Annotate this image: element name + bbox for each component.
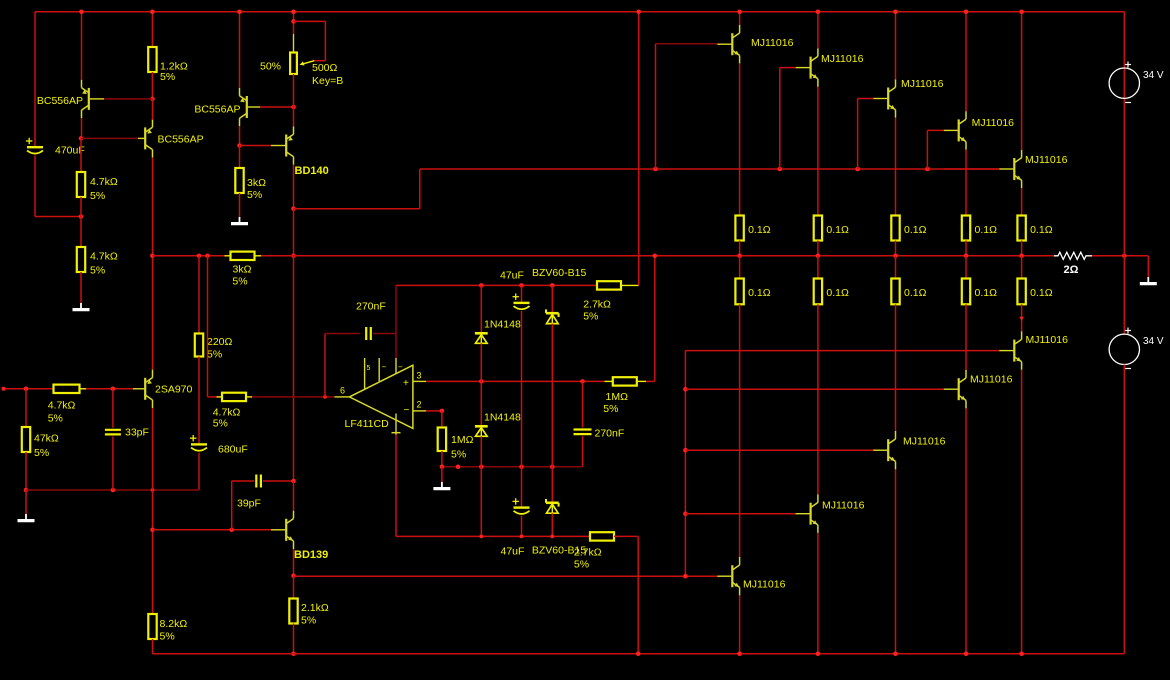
resistor R14 1M (horizontal to output rail) bbox=[613, 377, 637, 385]
wire Q10 collector to +34 bus bbox=[965, 12, 967, 111]
resistor R15 2.7k bbox=[597, 281, 621, 289]
svg-text:0.1Ω: 0.1Ω bbox=[904, 224, 927, 236]
svg-text:−: − bbox=[404, 405, 410, 416]
wire BD140 emitter up to pot column bbox=[293, 107, 295, 126]
resistor R13 1M (vertical) bbox=[441, 411, 443, 428]
svg-text:270nF: 270nF bbox=[356, 301, 386, 313]
svg-text:5%: 5% bbox=[48, 413, 63, 425]
transistor Q14 MJ11016 (lower bank) bbox=[887, 439, 889, 461]
wire Q2 emitter up bbox=[152, 99, 154, 120]
wire node down to R5 bbox=[239, 146, 241, 169]
svg-text:5%: 5% bbox=[301, 615, 316, 627]
wire Q1 collector down to junction bbox=[81, 118, 83, 138]
transistor Q12 MJ11016 (lower bank) bbox=[731, 565, 733, 587]
node left column crossing bbox=[151, 488, 155, 492]
wire Q8 base lead bbox=[796, 67, 811, 69]
transistor Q7 MJ11016 (upper bank) bbox=[731, 33, 733, 55]
svg-text:47kΩ: 47kΩ bbox=[34, 433, 59, 445]
svg-text:2: 2 bbox=[417, 400, 422, 410]
svg-text:34 V: 34 V bbox=[1143, 70, 1164, 81]
transistor Q11 MJ11016 (upper bank) bbox=[1013, 158, 1015, 180]
wire BD140 collector down bbox=[293, 165, 295, 209]
svg-text:500Ω: 500Ω bbox=[312, 62, 338, 74]
transistor Q10 MJ11016 (upper bank) bbox=[958, 119, 960, 141]
node R1/Q1 base/Q2 emitter bbox=[150, 97, 155, 102]
svg-text:−: − bbox=[382, 363, 387, 372]
op-amp pin 3 lead bbox=[413, 380, 426, 382]
svg-text:0.1Ω: 0.1Ω bbox=[975, 287, 998, 299]
svg-text:BC556AP: BC556AP bbox=[37, 95, 83, 107]
svg-text:5%: 5% bbox=[213, 418, 228, 430]
wire R2 to junction bbox=[80, 197, 82, 217]
node V- dots bbox=[479, 535, 483, 539]
wire 47k ground stem bbox=[25, 490, 27, 514]
svg-text:MJ11016: MJ11016 bbox=[1025, 154, 1068, 166]
node pin3/diodes bbox=[479, 379, 484, 384]
svg-text:0.1Ω: 0.1Ω bbox=[826, 287, 849, 299]
svg-text:MJ11016: MJ11016 bbox=[901, 78, 944, 90]
wire V+ pin7 (dark) bbox=[395, 285, 397, 358]
svg-text:4.7kΩ: 4.7kΩ bbox=[90, 251, 118, 263]
transistor Q13 MJ11016 (lower bank) bbox=[809, 503, 811, 525]
svg-text:3kΩ: 3kΩ bbox=[247, 177, 266, 189]
wire top +34V bus bbox=[35, 11, 1124, 13]
wire BD139 emitter to R11 bbox=[293, 576, 295, 599]
node pin2 / R13 1M bbox=[426, 410, 442, 412]
wire BD140 collector through rail down to BD139 bbox=[293, 209, 295, 256]
svg-text:5%: 5% bbox=[34, 447, 49, 459]
ground GND4 bbox=[441, 482, 443, 488]
wire ground stem mid bbox=[441, 467, 443, 482]
capacitor C10 47uF (lower) bbox=[521, 467, 523, 507]
svg-text:5: 5 bbox=[367, 365, 371, 372]
svg-text:2.7kΩ: 2.7kΩ bbox=[583, 299, 611, 311]
svg-text:MJ11016: MJ11016 bbox=[1026, 334, 1069, 346]
node bus / -34 feed bbox=[636, 652, 641, 657]
svg-text:MJ11016: MJ11016 bbox=[822, 500, 865, 512]
resistor R12 8.2k bbox=[148, 614, 156, 639]
voltage source V1 34V bbox=[1123, 12, 1125, 334]
voltage source V2 34V bbox=[1109, 334, 1139, 364]
svg-text:BC556AP: BC556AP bbox=[194, 104, 240, 116]
emitter resistors 0.1 Ohm row 1 bbox=[735, 216, 743, 241]
svg-text:5%: 5% bbox=[603, 403, 618, 415]
wire 1M to output rail column bbox=[646, 380, 655, 382]
svg-text:0.1Ω: 0.1Ω bbox=[1030, 287, 1053, 299]
node bus/Q1 bbox=[79, 10, 84, 15]
node bus/+34 column bbox=[636, 10, 641, 15]
upper driver rail y=169 bbox=[656, 168, 1000, 170]
wire Q7 collector to +34 bus bbox=[739, 12, 741, 25]
wire Q7 base lead bbox=[717, 43, 732, 45]
svg-text:4.7kΩ: 4.7kΩ bbox=[90, 176, 118, 188]
svg-text:0.1Ω: 0.1Ω bbox=[1030, 224, 1053, 236]
svg-text:0.1Ω: 0.1Ω bbox=[748, 224, 771, 236]
svg-text:MJ11016: MJ11016 bbox=[751, 37, 794, 49]
svg-text:1N4148: 1N4148 bbox=[484, 412, 521, 424]
wire 2SA970 collector down bbox=[152, 408, 154, 614]
op-amp U1 LF411CD bbox=[349, 365, 413, 428]
wire Q15 base lead bbox=[944, 388, 959, 390]
wire lower driver net to output bank bbox=[294, 575, 718, 577]
svg-text:BC556AP: BC556AP bbox=[158, 134, 204, 146]
wire Vz+ net (zener bias top) bbox=[396, 284, 480, 286]
node output rail / 1M column bbox=[653, 254, 658, 259]
capacitor C9 47uF (upper) bbox=[521, 285, 523, 302]
transistor Q1 BC556AP (left) bbox=[88, 88, 90, 110]
wire left column to 470uF bbox=[34, 12, 36, 147]
svg-text:5%: 5% bbox=[247, 189, 262, 201]
svg-text:5%: 5% bbox=[583, 311, 598, 323]
staircase wires upper bank bases bbox=[656, 43, 718, 45]
svg-text:4.7kΩ: 4.7kΩ bbox=[48, 400, 76, 412]
op-amp pin 6 output lead bbox=[335, 396, 350, 398]
wire BD139 base net bbox=[153, 529, 272, 531]
svg-text:5%: 5% bbox=[574, 559, 589, 571]
resistor R8 4.7k (horizontal) bbox=[222, 393, 246, 401]
resistor R3 4.7k bbox=[80, 217, 82, 248]
wire BD140 base bbox=[240, 145, 272, 147]
capacitor C6 39pF bbox=[255, 475, 257, 488]
node junction 4.7k/4.7k/470uF bbox=[79, 214, 84, 219]
svg-text:BD139: BD139 bbox=[294, 549, 328, 561]
ground GND3 bbox=[25, 514, 27, 520]
svg-text:2Ω: 2Ω bbox=[1064, 264, 1079, 276]
transistor Q15 MJ11016 (lower bank) bbox=[958, 378, 960, 400]
svg-text:LF411CD: LF411CD bbox=[345, 418, 390, 430]
svg-text:2.1kΩ: 2.1kΩ bbox=[301, 602, 329, 614]
svg-text:6: 6 bbox=[340, 386, 345, 396]
svg-text:3: 3 bbox=[417, 371, 422, 381]
node 47k/бottom wire bbox=[24, 488, 29, 493]
wire Q2 base (dark) bbox=[81, 137, 138, 139]
svg-text:220Ω: 220Ω bbox=[207, 336, 233, 348]
red marker arrow on Q16 collector bbox=[1019, 317, 1023, 321]
op-amp pin 2 lead bbox=[413, 410, 426, 412]
node 33pF bottom bbox=[111, 488, 116, 493]
load resistor R17 2 Ohm (zigzag) bbox=[1054, 252, 1092, 259]
node BD139 collector / 39pF bbox=[291, 479, 296, 484]
svg-text:5%: 5% bbox=[232, 276, 247, 288]
svg-text:5%: 5% bbox=[90, 265, 105, 277]
svg-text:MJ11016: MJ11016 bbox=[972, 117, 1015, 129]
resistor R6 3k (horizontal, in output rail) bbox=[231, 252, 255, 260]
transistor Q2 BC556AP (second) bbox=[144, 127, 146, 149]
node Q3 base / pot column bbox=[291, 105, 296, 110]
node 270nF tap bbox=[323, 395, 327, 399]
wire 2.7k lower to bottom bus bbox=[637, 536, 639, 653]
svg-text:MJ11016: MJ11016 bbox=[821, 53, 864, 65]
potentiometer R4 500 Ohm bbox=[293, 12, 295, 34]
wire R3 to ground bbox=[80, 272, 82, 303]
wire Q10 base lead bbox=[944, 129, 959, 131]
wire Q11 emitter to 0.1R bbox=[1021, 188, 1023, 215]
svg-text:2SA970: 2SA970 bbox=[155, 384, 193, 396]
ground GND1 bbox=[80, 303, 82, 309]
capacitor C7 270nF (feedback) bbox=[324, 334, 326, 397]
svg-text:34 V: 34 V bbox=[1143, 336, 1164, 347]
wire Q15 emitter to -34 bus bbox=[965, 408, 967, 653]
diode D1 1N4148 (upper) bbox=[480, 285, 482, 333]
node rail / right column bbox=[1122, 254, 1127, 259]
svg-text:5%: 5% bbox=[160, 631, 175, 643]
wire Q1 emitter up to bus bbox=[81, 12, 83, 80]
wire +34 column to 2.7k bbox=[638, 12, 640, 286]
lower bank base rungs bbox=[685, 350, 999, 352]
wire Q9 collector to +34 bus bbox=[895, 12, 897, 80]
node 33pF tap bbox=[111, 387, 116, 392]
transistor Q9 MJ11016 (upper bank) bbox=[887, 88, 889, 110]
svg-text:50%: 50% bbox=[260, 61, 281, 73]
svg-text:MJ11016: MJ11016 bbox=[743, 579, 786, 591]
wire Q9 emitter to 0.1R bbox=[895, 118, 897, 216]
svg-text:0.1Ω: 0.1Ω bbox=[748, 287, 771, 299]
wire Q11 base lead bbox=[999, 168, 1014, 170]
capacitor C5 680uF bbox=[191, 443, 207, 445]
resistor R10 47k bbox=[25, 389, 27, 427]
svg-text:BD140: BD140 bbox=[295, 165, 329, 177]
svg-text:47uF: 47uF bbox=[501, 546, 525, 558]
svg-text:5%: 5% bbox=[207, 349, 222, 361]
wire 470uF bottom to lower-left corner bbox=[34, 156, 36, 217]
wire Q9 base lead bbox=[873, 98, 888, 100]
node BD139 emitter / lower driver net bbox=[291, 574, 296, 579]
zener D4 BZV60-B15 (lower) bbox=[551, 467, 553, 503]
node bus/Q3 bbox=[237, 10, 242, 15]
ground GND2 bbox=[239, 217, 241, 223]
svg-text:5%: 5% bbox=[451, 449, 466, 461]
node bus/R11 bbox=[291, 652, 296, 657]
transistor Q3 BC556AP (top middle) bbox=[246, 96, 248, 118]
svg-text:33pF: 33pF bbox=[125, 427, 149, 439]
node 39pF branch bbox=[150, 528, 155, 533]
wire Q13 base lead bbox=[796, 513, 811, 515]
wire op-amp output net (dark) bbox=[252, 396, 335, 398]
svg-text:MJ11016: MJ11016 bbox=[903, 436, 946, 448]
node Q1 collector junction bbox=[79, 136, 84, 141]
node 39pF left column bbox=[229, 528, 234, 533]
wire 2SA970 base lead bbox=[133, 388, 145, 390]
emitter resistors 0.1 Ohm row 2 bbox=[739, 256, 741, 279]
wire bottom-left net bbox=[26, 489, 199, 491]
wire Q2 collector down long column bbox=[152, 158, 154, 370]
wire Q10 emitter to 0.1R bbox=[965, 150, 967, 216]
wire MJ5 base from rail bbox=[944, 168, 1000, 170]
wire Q3 emitter up to bus bbox=[239, 12, 241, 88]
node input endpoint bbox=[2, 387, 6, 391]
capacitor C1 470uF bbox=[27, 146, 43, 148]
svg-text:Key=B: Key=B bbox=[312, 75, 343, 87]
node input / 47k bbox=[24, 387, 29, 392]
transistor Q16 MJ11016 (lower bank) bbox=[1013, 340, 1015, 362]
wire Q11 collector to +34 bus bbox=[1021, 12, 1023, 150]
wire output rail (left part) bbox=[152, 255, 224, 257]
svg-text:0.1Ω: 0.1Ω bbox=[904, 287, 927, 299]
wire Q12 base lead bbox=[717, 575, 732, 577]
resistor R1 1.2k bbox=[151, 12, 153, 47]
wire Q3 collector down bbox=[239, 126, 241, 145]
node rail/220R bbox=[197, 254, 202, 259]
wire Q7 emitter to 0.1R bbox=[739, 63, 741, 215]
wire 39pF left column up bbox=[231, 481, 233, 530]
wire BD139 collector up bbox=[293, 481, 295, 511]
resistor R5 3k (vertical) bbox=[235, 168, 243, 193]
wire output rail right end bbox=[1092, 255, 1148, 257]
svg-text:1N4148: 1N4148 bbox=[484, 319, 521, 331]
wire 0.1R row2 down to lower bank collectors bbox=[739, 304, 741, 557]
svg-text:+: + bbox=[403, 378, 409, 389]
wire Q1 base to node bbox=[89, 98, 104, 100]
node BD140 collector corner bbox=[291, 206, 296, 211]
resistor R16 2.7k (lower, in V- line) bbox=[590, 532, 614, 540]
resistor R9 4.7k (horizontal input) bbox=[54, 385, 80, 393]
node bus/R1 bbox=[150, 10, 155, 15]
wire Q3 base to pot column bbox=[247, 106, 260, 108]
svg-text:0.1Ω: 0.1Ω bbox=[826, 224, 849, 236]
node rail/branch 207.5 bbox=[205, 254, 210, 259]
wire 8.2k to bottom bus bbox=[152, 639, 154, 654]
svg-text:47uF: 47uF bbox=[500, 270, 524, 282]
capacitor C4 33pF bbox=[112, 389, 114, 428]
wire Q14 emitter to -34 bus bbox=[895, 469, 897, 653]
svg-text:5%: 5% bbox=[90, 190, 105, 202]
resistor R7 220R bbox=[198, 256, 200, 334]
wire V- pin4 down bbox=[395, 435, 397, 537]
wire right column lower half bbox=[1123, 365, 1125, 654]
wire junction down to R2 bbox=[80, 138, 82, 172]
svg-text:−: − bbox=[398, 363, 403, 372]
op-amp pin 4 stub bbox=[395, 414, 397, 435]
input wire left bbox=[4, 388, 54, 390]
wire 220R to 680uF bbox=[198, 357, 200, 444]
node gnd net dots bbox=[440, 465, 445, 470]
node pin3/270nF2 bbox=[580, 379, 585, 384]
ground GND5 bbox=[1147, 277, 1149, 283]
wire to upper driver rail bbox=[294, 208, 420, 210]
wire Q14 base lead bbox=[873, 449, 888, 451]
svg-text:680uF: 680uF bbox=[218, 444, 248, 456]
svg-text:270nF: 270nF bbox=[595, 428, 625, 440]
zener D2 BZV60-B15 (upper) bbox=[551, 285, 553, 313]
capacitor C8 270nF (pin3 to gnd net) bbox=[582, 381, 584, 427]
svg-text:5%: 5% bbox=[160, 71, 175, 83]
transistor Q6 BD139 bbox=[285, 519, 287, 541]
svg-text:BZV60-B15: BZV60-B15 bbox=[532, 267, 586, 279]
wire 680uF bottom bbox=[198, 453, 200, 490]
wire pin3 net bbox=[426, 380, 605, 382]
op-amp balance stubs and V+ pin 7 bbox=[364, 358, 366, 389]
wire Q13 emitter to -34 bus bbox=[817, 533, 819, 654]
transistor Q8 MJ11016 (upper bank) bbox=[809, 57, 811, 79]
wire to right ground bbox=[1147, 256, 1149, 277]
wire R5 to ground bbox=[239, 193, 241, 217]
lower bank ladder vertical bbox=[684, 351, 686, 577]
svg-text:MJ11016: MJ11016 bbox=[970, 374, 1013, 386]
svg-text:1MΩ: 1MΩ bbox=[451, 434, 474, 446]
wire Q12 emitter to -34 bus bbox=[739, 595, 741, 653]
svg-text:2.7kΩ: 2.7kΩ bbox=[574, 547, 602, 559]
svg-text:1MΩ: 1MΩ bbox=[606, 391, 629, 403]
transistor Q5 2SA970 bbox=[144, 378, 146, 400]
svg-text:8.2kΩ: 8.2kΩ bbox=[160, 618, 188, 630]
wire Q16 emitter to -34 bus bbox=[1021, 370, 1023, 654]
svg-text:0.1Ω: 0.1Ω bbox=[975, 224, 998, 236]
node Q3 collector / R5 / BD140 base bbox=[237, 143, 242, 148]
transistor Q4 BD140 bbox=[285, 135, 287, 157]
resistor R11 2.1k bbox=[289, 599, 297, 624]
svg-text:3kΩ: 3kΩ bbox=[233, 264, 252, 276]
node driver rail junctions bbox=[653, 167, 658, 172]
wire BD139 emitter down bbox=[293, 549, 295, 576]
wire 39pF right to BD139 collector column bbox=[263, 480, 294, 482]
resistor R2 4.7k bbox=[77, 172, 85, 197]
svg-text:39pF: 39pF bbox=[237, 498, 261, 510]
node output-rail/left column bbox=[150, 254, 155, 259]
wire Q8 emitter to 0.1R bbox=[817, 87, 819, 216]
wire Q16 base lead bbox=[999, 350, 1014, 352]
wire Q8 collector to +34 bus bbox=[817, 12, 819, 49]
wire branch column to op-amp output net bbox=[207, 256, 209, 397]
pot wiper wire bbox=[291, 19, 296, 24]
node mid column / output rail bbox=[291, 254, 296, 259]
